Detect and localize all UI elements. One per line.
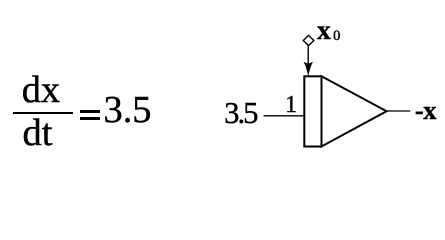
- fraction bar: [13, 112, 73, 114]
- label x0: [317, 16, 331, 44]
- wire output to -x: [387, 110, 411, 112]
- equals sign bottom bar: [80, 117, 100, 120]
- equation value 3.5: [104, 91, 152, 129]
- label x0 subscript 0: [333, 29, 340, 44]
- integrator U1 initial-condition box: [304, 76, 321, 146]
- wire input from 3.5 to integrator: [264, 115, 305, 117]
- integrator U1 triangle: [322, 76, 387, 146]
- equation numerator dx: [22, 71, 60, 109]
- wire initial condition from diamond down: [307, 46, 309, 67]
- input value label 3.5: [224, 98, 256, 129]
- node -x output label: [415, 97, 436, 124]
- arrowhead into integrator top: [304, 62, 314, 77]
- gain label 1: [285, 93, 297, 117]
- node x0 diamond: [303, 35, 314, 45]
- equals sign top bar: [80, 110, 100, 113]
- equation denominator dt: [23, 114, 53, 152]
